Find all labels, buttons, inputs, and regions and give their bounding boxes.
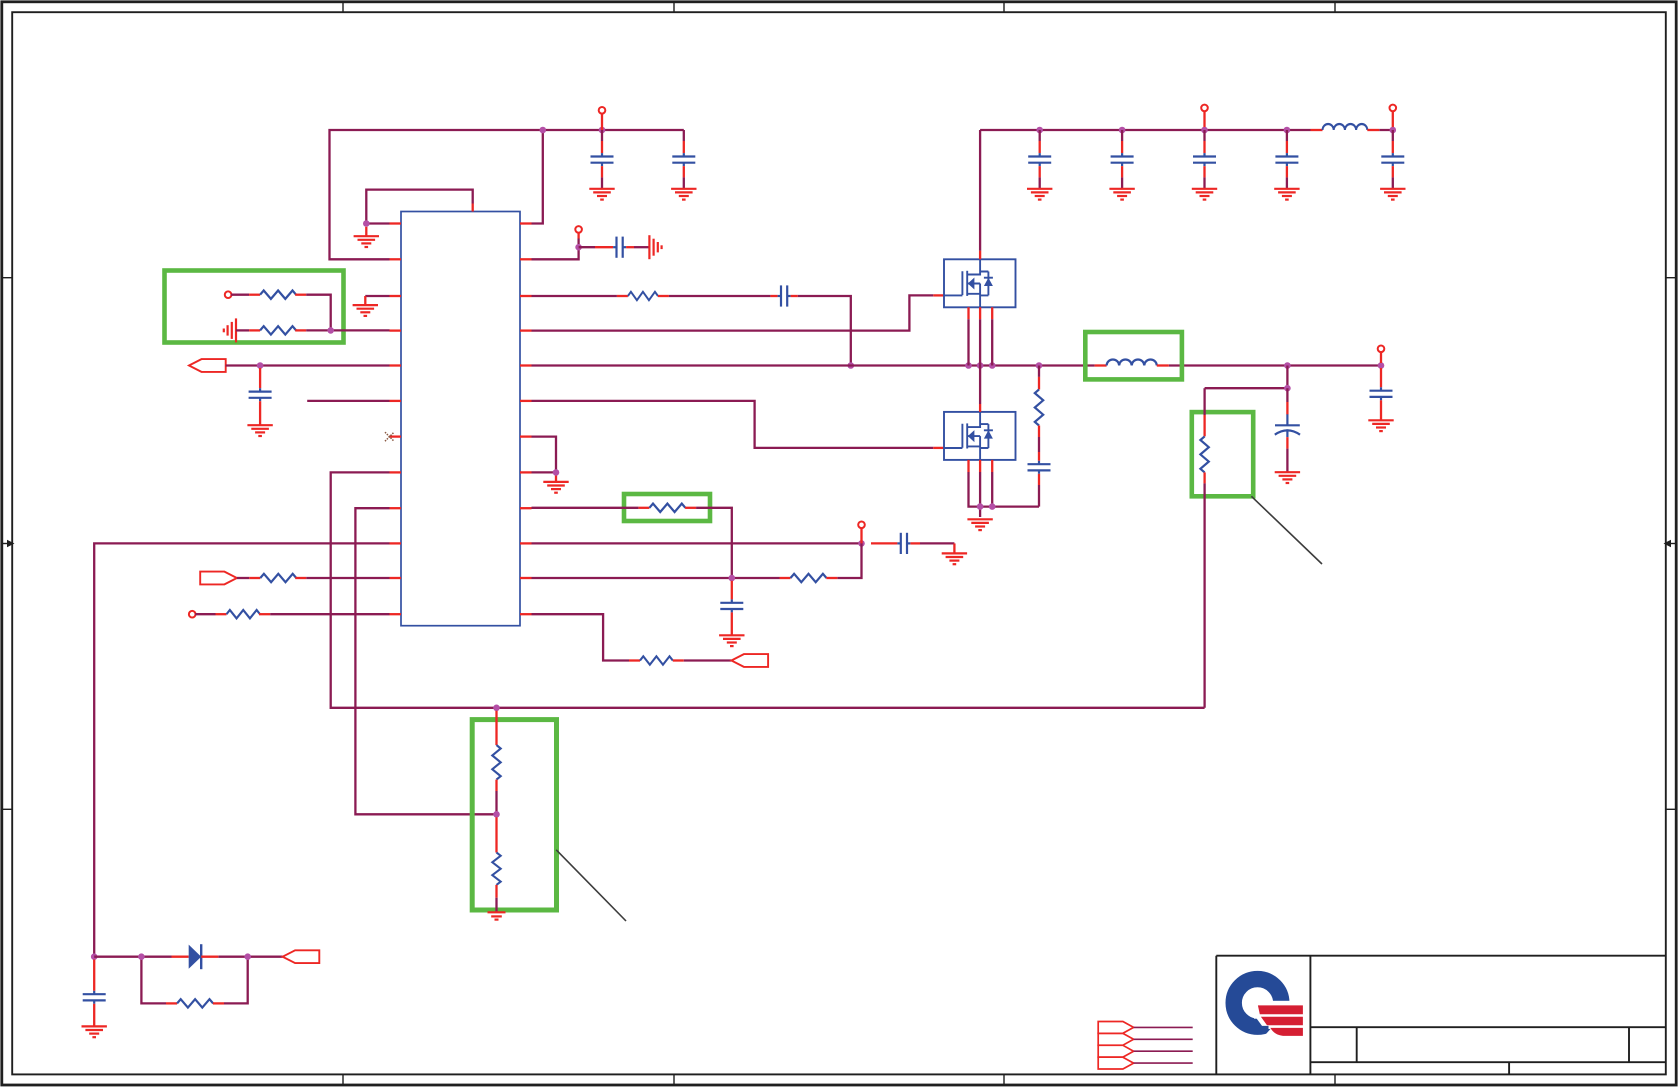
ground C-out	[1275, 472, 1300, 483]
wire VREG to U1 pin5	[226, 364, 390, 366]
resistor R-FB-upper	[492, 711, 500, 791]
left border zone ticks	[2, 278, 13, 810]
resistor R-pin9	[638, 504, 696, 512]
net flag bottom output	[283, 950, 320, 963]
ground C1	[589, 189, 614, 200]
junction SW Q1 source a	[965, 362, 972, 369]
resistor R-SYNC	[216, 610, 271, 618]
junction VOUT terminal	[1378, 362, 1385, 369]
junction AVIN branch	[540, 127, 547, 134]
capacitor C1	[591, 130, 614, 189]
green highlight box GB3	[1085, 332, 1182, 379]
resistor R-FB-top	[1200, 415, 1208, 483]
junction SW Q1 source b	[977, 362, 984, 369]
junction BST SW	[848, 362, 855, 369]
junction PGND b	[989, 503, 996, 510]
ground pin3	[353, 305, 378, 316]
ground C-pin10	[942, 553, 967, 564]
ground C-vin5	[1380, 189, 1405, 200]
capacitor C2	[672, 130, 695, 189]
net flag EN	[200, 572, 237, 585]
inductor L1	[1095, 359, 1169, 365]
terminal bypass	[575, 226, 582, 244]
junction VREG cap	[257, 362, 264, 369]
title block frame	[1216, 956, 1666, 1075]
wire U1 pin2 to bypass node	[532, 247, 579, 259]
wire Q2 sources to PGND	[969, 472, 1040, 517]
ground pin1	[354, 227, 379, 247]
wire pin9 to pin11 node	[532, 508, 732, 578]
resistor R-EN	[249, 574, 306, 582]
wire VIN bus	[980, 129, 1393, 131]
wire R-SYNC to U1 pin12	[270, 613, 389, 615]
junction FB top	[493, 705, 500, 712]
wire Q1 drain to VIN	[979, 130, 981, 251]
wire FB upper to mid	[495, 791, 497, 814]
ground C3	[247, 425, 272, 436]
wire U1 pin9 to divider mid	[355, 508, 496, 814]
ground FB divider	[488, 912, 506, 919]
leader line GB2	[1251, 496, 1322, 564]
junction pin10 node	[858, 540, 865, 547]
wire EN flag to resistor	[237, 577, 249, 579]
ground C-term	[1368, 420, 1393, 431]
wire BST to SW	[532, 296, 851, 366]
left border center arrow	[2, 540, 15, 548]
resistor R-FB-lower	[492, 817, 500, 912]
terminal VOUT	[1378, 346, 1385, 364]
capacitor C-pin10	[871, 533, 954, 554]
revision marker flags	[1098, 1022, 1133, 1070]
resistor R2	[249, 326, 306, 334]
ground power stage	[967, 519, 992, 530]
net flag VREG	[189, 359, 226, 372]
inductor L2	[1311, 124, 1380, 130]
junction bottom cap	[91, 953, 98, 960]
junction divider tap	[1284, 385, 1291, 392]
IC U1 pin stubs	[390, 204, 532, 615]
green highlight box GB4	[624, 494, 710, 521]
wire Q2 drain to SW	[979, 366, 981, 405]
junction SW Q1 source c	[989, 362, 996, 369]
wire U1 pin10 to bottom net	[94, 543, 389, 956]
junction R1 R2	[327, 327, 334, 334]
leader line GB5	[556, 850, 626, 921]
right border center arrow	[1664, 540, 1677, 548]
ground C-vin4	[1274, 189, 1299, 200]
wire SW bus	[532, 364, 1382, 366]
ground C-vin3	[1192, 189, 1217, 200]
capacitor C-bypass	[579, 237, 650, 258]
no-connect mark U1 pin7	[385, 432, 394, 441]
green highlight box GB1	[165, 271, 344, 343]
MOSFET Q1	[944, 251, 1016, 320]
wire U1 pin10 to filter node	[532, 542, 862, 544]
wire U1 pin6 net stub	[307, 400, 389, 402]
wire VOUT branch	[1205, 366, 1288, 392]
ground C-bottom	[82, 1026, 107, 1037]
wire U1 pin1 loop to top pin	[366, 190, 472, 224]
resistor R-BST	[617, 292, 669, 300]
junction pin1 ground	[363, 220, 370, 227]
wire U1 pin3 to ground	[365, 296, 389, 305]
terminal AVIN input	[599, 107, 606, 130]
ground C-pin11	[719, 635, 744, 646]
capacitor C-vin3	[1193, 130, 1216, 189]
terminal pin10	[858, 522, 865, 544]
junction D1 anode	[138, 953, 145, 960]
terminal VIN 2	[1390, 105, 1397, 127]
wire FB vertical lower	[1203, 483, 1205, 707]
chassis ground R2	[224, 318, 249, 342]
wire R-pin12 to flag	[684, 659, 732, 661]
wire AVIN top bus	[330, 130, 684, 259]
wire U1 pin4 to Q1 gate	[532, 295, 945, 330]
right border zone ticks	[1666, 278, 1677, 810]
ground C2	[671, 189, 696, 200]
terminal SYNC	[189, 611, 216, 618]
capacitor C-out polarized	[1275, 388, 1300, 472]
wire U1 pin8 to FB node	[331, 472, 1205, 707]
junction VOUT divider	[1284, 362, 1291, 369]
junction AVIN C1	[599, 127, 606, 134]
IC U1 body	[401, 212, 520, 626]
junction FB mid	[493, 811, 500, 818]
junction PGND a	[977, 503, 984, 510]
capacitor C-pin11	[720, 581, 743, 636]
wire U1 pin7 pin8 to ground	[532, 437, 557, 482]
green highlight box GB5	[472, 720, 556, 910]
wire FB vertical upper	[1203, 388, 1205, 415]
terminal R1 input	[225, 291, 249, 298]
capacitor C-term	[1370, 368, 1393, 420]
ground C-vin2	[1109, 189, 1134, 200]
revision marker leader lines	[1134, 1027, 1193, 1063]
junction pins7-8	[553, 469, 560, 476]
junction VIN C4	[1036, 127, 1043, 134]
resistor R-D1	[166, 999, 224, 1007]
junction pin11 cap	[729, 575, 736, 582]
top border zone ticks	[343, 2, 1335, 13]
ground pins7-8	[543, 482, 568, 493]
terminal VIN 1	[1201, 105, 1208, 127]
wire R2 to U1 pin4	[306, 329, 389, 331]
wire Q1 sources to SW	[969, 319, 993, 365]
junction bypass	[575, 244, 582, 251]
ground C-vin1	[1027, 189, 1052, 200]
junction SW snubber	[1036, 362, 1043, 369]
wire bottom diode net	[94, 957, 282, 1004]
junction VIN C5	[1119, 127, 1126, 134]
chassis ground bypass	[649, 235, 661, 259]
capacitor C-vin1	[1028, 130, 1051, 189]
junction VIN C6	[1201, 127, 1208, 134]
wire U1 pin11 net	[532, 543, 862, 578]
MOSFET Q2	[944, 404, 1016, 472]
resistor R1	[249, 291, 306, 299]
capacitor C-snub	[1028, 437, 1051, 507]
capacitor C-vin4	[1275, 130, 1298, 189]
diode D1	[172, 944, 219, 969]
capacitor C-vin2	[1111, 130, 1134, 189]
wire U1 pin6 to Q2 gate	[532, 401, 945, 448]
wire U1 pin12 net	[532, 614, 630, 660]
junction VIN C8	[1390, 127, 1397, 134]
resistor R-pin11	[780, 574, 838, 582]
capacitor C-bottom	[83, 960, 106, 1027]
green highlight box GB2	[1192, 412, 1253, 496]
wire R1 to junction	[306, 295, 331, 331]
bottom border zone ticks	[343, 1074, 1335, 1085]
company logo	[1234, 979, 1307, 1043]
resistor R-snub	[1035, 366, 1043, 438]
wire AVIN to U1 pin 1	[532, 130, 543, 224]
capacitor C-BST	[770, 285, 797, 306]
resistor R-pin12	[629, 656, 684, 664]
capacitor C-vin5	[1381, 130, 1404, 189]
junction VIN C7	[1284, 127, 1291, 134]
capacitor C3	[249, 368, 272, 425]
wire R-EN to U1 pin11	[306, 577, 389, 579]
net flag PG	[731, 654, 768, 667]
junction D1 cathode	[244, 953, 251, 960]
